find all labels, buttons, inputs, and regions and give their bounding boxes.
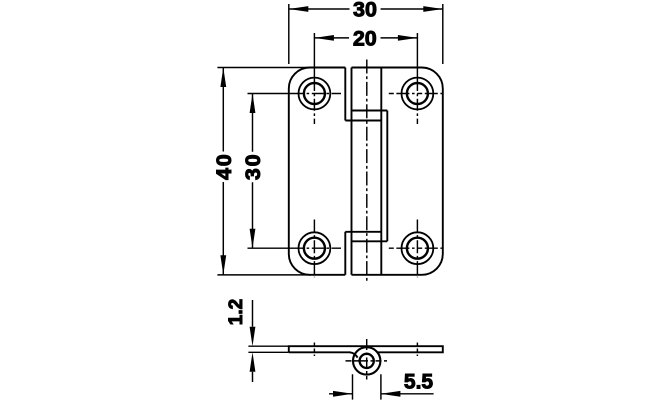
side view hole tick left: [313, 343, 315, 357]
dimension 20 (hole spacing) line: [314, 37, 417, 39]
knuckle step lines: [345, 111, 387, 242]
hole centerline vertical bottom-left: [313, 220, 315, 278]
dimension 40 (height) extension lines: [217, 68, 311, 275]
dimension 30 arrows: [289, 6, 309, 12]
loop centerline horizontal: [346, 360, 388, 362]
hole centerline horizontal top row right: [389, 93, 446, 95]
hole top-right outer: [402, 78, 434, 110]
hole centerline vertical top-right: [416, 33, 418, 79]
hole top-left inner: [304, 83, 325, 104]
svg-text:30: 30: [353, 0, 377, 22]
hole bottom-left inner: [304, 238, 325, 259]
dimension 30 (top width) line: [289, 8, 443, 10]
dimension 1.2 arrow lines: [252, 300, 254, 382]
hole centerline horizontal bottom row right: [389, 247, 446, 249]
knuckle vertical B (barrel left): [351, 68, 353, 275]
hole top-left outer: [299, 78, 331, 110]
dimension 40 arrows: [220, 68, 226, 88]
barrel centerline (dash-dot): [366, 60, 368, 284]
side view hole tick right: [416, 343, 418, 357]
dimension 40 line: [222, 68, 224, 275]
dimension 5.5 lines: [329, 393, 434, 395]
dimension 5.5 arrows: [333, 391, 353, 397]
hole centerline horizontal top row left: [248, 93, 293, 95]
dimension 20 arrows: [314, 35, 334, 41]
dimension 1.2 extension lines: [248, 346, 288, 352]
dimension 30 vertical arrows: [250, 94, 256, 114]
loop outer circle: [353, 347, 380, 374]
hole centerline vertical bottom-right: [416, 220, 418, 278]
dimension 5.5 extension lines: [353, 374, 381, 399]
dimension 1.2 arrows: [250, 327, 256, 347]
hole centerline horizontal bottom row left: [248, 247, 293, 249]
hinge body outline (top view, rounded rect with knuckle gaps): [289, 68, 443, 275]
svg-text:20: 20: [353, 27, 377, 51]
hole bottom-right outer: [402, 232, 434, 264]
loop centerline vertical: [366, 339, 368, 380]
svg-text:1.2: 1.2: [226, 299, 247, 325]
hole top-right inner: [407, 83, 428, 104]
svg-text:30: 30: [241, 153, 265, 181]
hole bottom-right inner: [407, 238, 428, 259]
hole bottom-left outer: [299, 232, 331, 264]
side view plate outline: [289, 346, 443, 352]
dimension 30 (top width) extension lines: [289, 4, 443, 64]
svg-text:40: 40: [212, 152, 236, 180]
curl transition fillet: [350, 352, 358, 357]
knuckle vertical A (left leaf edge): [344, 68, 346, 275]
hole centerlines vertical top-left (merged with 20 extension): [313, 33, 315, 79]
svg-text:5.5: 5.5: [404, 371, 434, 394]
knuckle vertical D (right leaf edge): [386, 111, 388, 242]
dimension 30 (hole vertical spacing) line: [252, 94, 254, 249]
knuckle vertical C (barrel right): [380, 68, 382, 275]
loop inner circle (pin): [360, 354, 374, 368]
